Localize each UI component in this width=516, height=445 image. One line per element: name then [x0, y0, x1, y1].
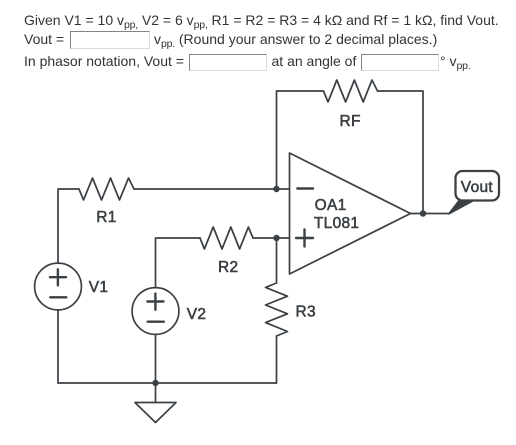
wire: bottom ground rail — [58, 382, 277, 384]
wire: V2 bottom to rail — [155, 335, 157, 384]
wire: op-amp output — [411, 213, 450, 215]
label V2 — [187, 306, 207, 323]
svg-text:RF: RF — [340, 113, 361, 130]
label V1 — [89, 279, 109, 296]
voltage source V1 — [35, 263, 82, 310]
resistor R1 — [79, 178, 134, 200]
label R1 — [96, 209, 116, 226]
answer input box 3 — [361, 54, 439, 72]
label RF — [340, 113, 361, 130]
resistor R2 — [200, 227, 253, 249]
node: output junction — [420, 210, 426, 216]
node: ground junction — [152, 380, 158, 386]
Vout callout — [449, 171, 499, 214]
voltage source V2 — [132, 288, 179, 335]
svg-text:TL081: TL081 — [314, 215, 359, 232]
resistor R3 — [266, 283, 288, 336]
label TL081 — [314, 215, 359, 232]
wire: V1 bottom to rail — [57, 310, 59, 383]
label R2 — [218, 259, 238, 276]
svg-text:R2: R2 — [218, 259, 238, 276]
ground — [135, 383, 176, 423]
wire: R1 to op-amp inverting input — [134, 188, 290, 190]
wire: R3 bottom to ground rail — [276, 336, 278, 383]
svg-text:R1: R1 — [96, 209, 116, 226]
wire: R2 to op-amp non-inverting input — [253, 237, 290, 239]
svg-text:R3: R3 — [296, 303, 316, 320]
problem text line 2 prefix — [24, 32, 64, 46]
node: non-inverting input junction — [273, 235, 279, 241]
label OA1 — [315, 197, 347, 214]
answer input box 2 — [189, 54, 267, 72]
problem text line 3 prefix — [24, 54, 184, 68]
problem text line 1 — [24, 13, 499, 29]
answer input box 1 — [70, 31, 150, 49]
svg-text:V2: V2 — [187, 306, 207, 323]
node: inverting input junction — [273, 186, 279, 192]
wire: RF right down to output node — [378, 91, 424, 214]
problem text line 3 suffix — [440, 54, 471, 70]
wire: V1 top to R1 left — [58, 189, 79, 263]
svg-text:Vout: Vout — [461, 179, 494, 196]
svg-text:OA1: OA1 — [315, 197, 347, 214]
label R3 — [296, 303, 316, 320]
wire: V2 top to R2 left — [156, 238, 201, 287]
problem text line 2 suffix — [154, 32, 437, 48]
wire: non-inverting node down to R3 — [276, 238, 278, 283]
svg-text:V1: V1 — [89, 279, 109, 296]
op-amp OA1 — [290, 153, 411, 274]
wire: inverting node up-left of feedback loop — [277, 91, 324, 189]
problem text line 3 middle — [272, 54, 357, 68]
resistor RF — [324, 80, 378, 102]
